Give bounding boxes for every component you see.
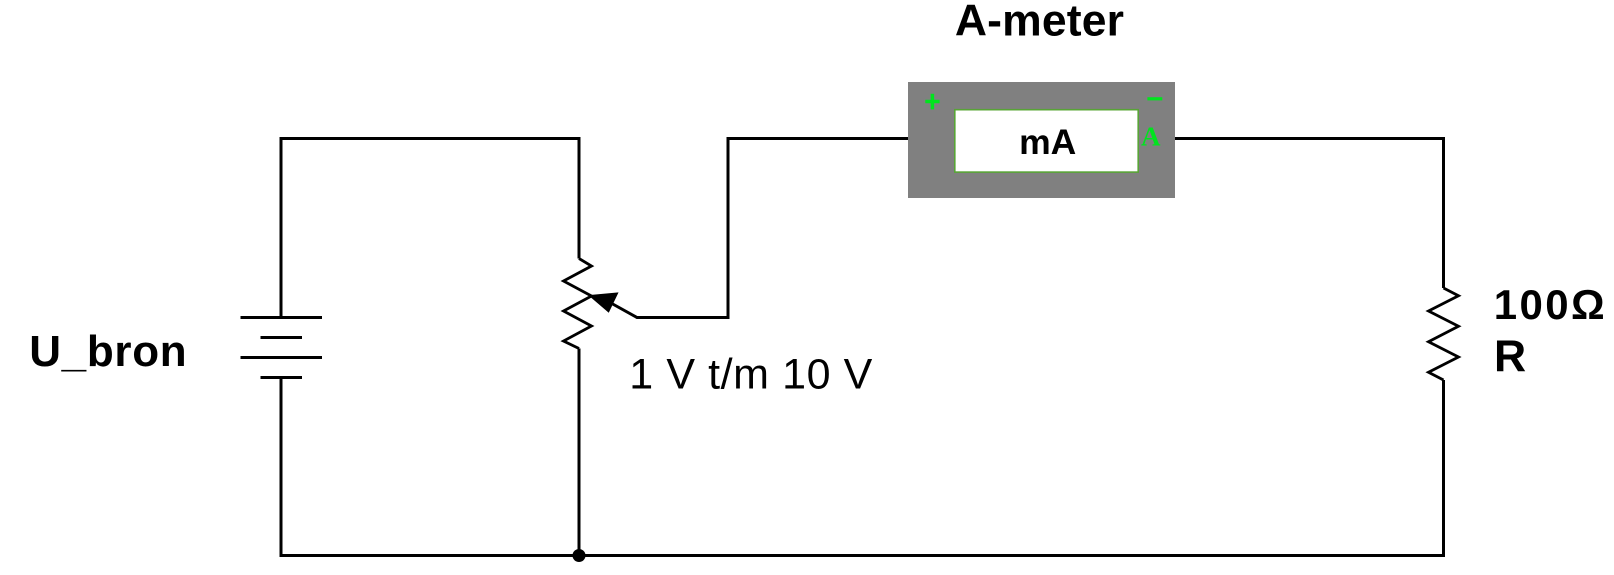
wire wiper to ammeter plus terminal — [610, 139, 908, 318]
svg-text:A: A — [1141, 121, 1161, 151]
resistor R zigzag — [1429, 288, 1459, 380]
junction node dot — [573, 549, 586, 562]
wire from battery top to potentiometer top — [281, 139, 581, 318]
ammeter display window — [955, 110, 1138, 172]
svg-text:U_bron: U_bron — [29, 327, 187, 376]
svg-text:mA: mA — [1019, 122, 1076, 162]
svg-text:100Ω: 100Ω — [1494, 281, 1605, 328]
potentiometer zigzag — [564, 259, 592, 349]
wire potentiometer bottom lead to junction — [578, 349, 581, 556]
wire ammeter minus to resistor top — [1175, 139, 1444, 289]
wire resistor bottom along bottom to battery minus — [281, 378, 1444, 556]
ammeter body — [908, 82, 1175, 198]
wire potentiometer top lead — [578, 139, 581, 259]
svg-text:A-meter: A-meter — [955, 0, 1124, 46]
svg-text:1 V t/m 10 V: 1 V t/m 10 V — [629, 351, 872, 399]
wiper arrow — [590, 293, 617, 311]
ammeter minus terminal — [1147, 97, 1162, 100]
battery U_bron plates — [241, 318, 323, 378]
svg-text:R: R — [1494, 332, 1526, 381]
ammeter plus terminal — [925, 94, 939, 110]
